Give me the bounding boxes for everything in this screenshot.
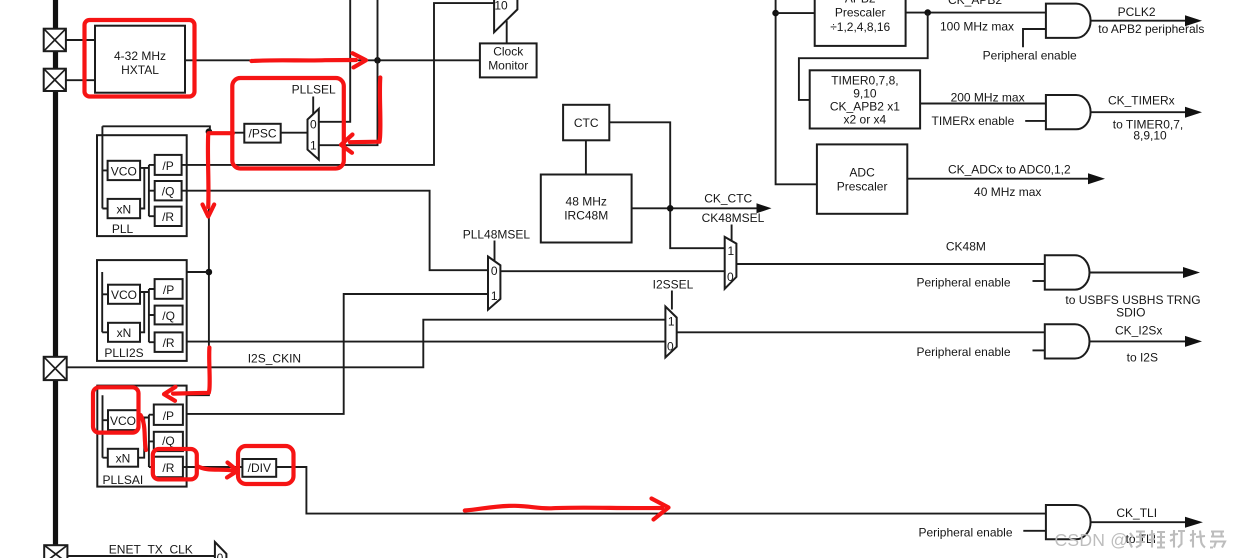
PLL /Q box	[155, 181, 182, 200]
PLL /R box	[155, 207, 182, 226]
svg-text:1: 1	[727, 244, 734, 258]
wire peripheral enable stub U5	[1023, 530, 1046, 532]
svg-text:100 MHz max: 100 MHz max	[940, 20, 1014, 34]
svg-text:Peripheral enable: Peripheral enable	[916, 275, 1010, 289]
PLLI2S /Q box	[155, 306, 183, 325]
svg-text:HXTAL: HXTAL	[121, 63, 159, 77]
mux 10 (clock monitor select, cut at top)	[494, 0, 517, 32]
PLLSAI internal wires	[103, 395, 154, 467]
svg-text:x2 or x4: x2 or x4	[844, 113, 887, 127]
svg-text:VCO: VCO	[111, 164, 137, 178]
svg-text:40 MHz max: 40 MHz max	[974, 185, 1041, 199]
wire I2SSEL select line	[671, 291, 673, 310]
ADC Prescaler box	[817, 144, 907, 213]
PLL internal wires	[102, 126, 154, 216]
svg-text:Prescaler: Prescaler	[835, 5, 886, 19]
wire mux10 output to Clock Monitor	[506, 21, 508, 44]
PLLSAI /P box	[154, 405, 183, 425]
svg-text:1: 1	[310, 139, 317, 153]
wire PLLSAI /P to PLL48MSEL 1 input	[183, 294, 488, 414]
node IRC48M junction	[667, 205, 674, 212]
mux ENET (cut at bottom)	[215, 542, 227, 558]
wire CK48M output	[1090, 272, 1185, 274]
wire I2SSEL output CK_I2S line	[677, 331, 1045, 333]
PLLI2S block outer box	[97, 260, 187, 361]
PLLSAI /Q box	[154, 432, 183, 451]
red annotation: stub from junction into red box	[209, 131, 234, 135]
PLLSAI VCO box	[108, 410, 138, 430]
svg-text:CK_I2Sx: CK_I2Sx	[1115, 323, 1162, 337]
svg-text:0: 0	[667, 340, 674, 354]
arrowhead CK48M	[1183, 267, 1200, 278]
divider /DIV box	[242, 459, 276, 477]
svg-text:8,9,10: 8,9,10	[1133, 129, 1167, 143]
wire HXTAL output to Clock Monitor	[185, 59, 480, 61]
svg-text:Peripheral enable: Peripheral enable	[916, 345, 1010, 359]
svg-text:/R: /R	[162, 210, 174, 224]
wire distribution vertical to PLLI2S and PLLSAI	[103, 132, 209, 396]
PLL /P box	[155, 155, 182, 175]
wire peripheral enable stub U4	[1033, 349, 1045, 351]
PLLSAI block outer box	[97, 386, 186, 487]
red annotation: arrow down from /PSC junction	[206, 135, 211, 208]
svg-text:CK_ADCx to ADC0,1,2: CK_ADCx to ADC0,1,2	[948, 162, 1071, 176]
red annotation: box around /DIV	[238, 446, 294, 484]
red annotation: box around PLLSAI VCO	[93, 387, 139, 432]
svg-text:xN: xN	[117, 326, 132, 340]
svg-text:VCO: VCO	[111, 288, 137, 302]
wire PLLSEL select line	[312, 97, 314, 115]
red annotation: box around HXTAL	[85, 20, 195, 97]
PLLSAI xN box	[108, 449, 138, 467]
red annotation: long arrow over CK_TLI line	[465, 506, 662, 511]
svg-text:1: 1	[668, 315, 675, 329]
svg-text:PLLSAI: PLLSAI	[103, 473, 144, 487]
PLL block outer box	[97, 135, 187, 236]
svg-text:9,10: 9,10	[853, 87, 877, 101]
wire CK48M output line	[736, 263, 1044, 265]
wire OSCIN to HXTAL	[66, 39, 95, 41]
arrowhead CK_I2Sx	[1185, 336, 1202, 347]
wire CK48MSEL select line	[731, 225, 733, 242]
PLL VCO box	[108, 161, 141, 180]
mux I2SSEL	[665, 307, 676, 358]
svg-text:PLLI2S: PLLI2S	[104, 346, 143, 360]
oscillator HXTAL box	[95, 26, 185, 93]
oscillator IRC48M box	[541, 175, 632, 243]
svg-text:/R: /R	[162, 461, 174, 475]
mux PLLSEL	[308, 109, 319, 160]
svg-text:0: 0	[310, 118, 317, 132]
and-gate U5 CK_TLI	[1046, 505, 1091, 539]
svg-text:xN: xN	[116, 452, 131, 466]
svg-text:48 MHz: 48 MHz	[566, 194, 607, 208]
wire OSCOUT to HXTAL	[66, 79, 95, 81]
svg-text:CK_TLI: CK_TLI	[1116, 506, 1157, 520]
wire CK_TLI output	[1091, 521, 1186, 523]
wire PLL48MSEL output to CK48MSEL 0 input	[500, 270, 724, 272]
pin OSCIN (crossed box)	[44, 29, 66, 52]
wire /DIV output CK_TLI line	[276, 467, 1046, 514]
red annotation: arrow down-left into PLLSEL 1 input	[350, 78, 380, 143]
wire TIMER output to gate U2	[920, 103, 1046, 105]
svg-text:0: 0	[727, 270, 734, 284]
svg-text:CK_CTC: CK_CTC	[704, 192, 752, 206]
node HXTAL junction	[374, 57, 381, 64]
PLLI2S /P box	[155, 279, 183, 299]
arrowhead CK_TLI	[1185, 517, 1203, 528]
pin ENET_TX_CLK (crossed box, cut)	[44, 545, 67, 558]
svg-text:TIMERx enable: TIMERx enable	[932, 114, 1015, 128]
wire PLLI2S top feed	[102, 271, 209, 273]
node PLLI2S junction	[206, 269, 213, 276]
svg-text:xN: xN	[116, 202, 131, 216]
svg-text:/Q: /Q	[162, 309, 175, 323]
svg-text:to I2S: to I2S	[1127, 351, 1158, 365]
Clock Monitor box	[480, 43, 537, 77]
svg-text:PCLK2: PCLK2	[1118, 5, 1156, 19]
wire PLL /Q output to PLL48MSEL 0 input	[182, 191, 488, 271]
wire PLLI2S /R to I2SSEL 0 input	[183, 341, 666, 343]
node APB2 junction	[772, 10, 779, 17]
svg-text:PLL48MSEL: PLL48MSEL	[463, 228, 531, 242]
svg-text:CSDN @: CSDN @	[1055, 530, 1129, 550]
node PLL distribution junction	[206, 128, 213, 135]
PLLI2S xN box	[108, 323, 140, 342]
svg-text:ADC: ADC	[849, 165, 875, 179]
svg-text:TIMER0,7,8,: TIMER0,7,8,	[831, 74, 898, 88]
arrowhead PCLK2	[1185, 15, 1202, 26]
mux PLL48MSEL	[488, 257, 500, 310]
wire to APB2 prescaler	[776, 12, 815, 14]
watermark CJK glyph blocks	[1129, 530, 1225, 548]
wire peripheral enable to gate U1	[1023, 29, 1046, 47]
wire peripheral enable stub U3	[1033, 280, 1045, 282]
wire TIMERx enable stub	[1025, 120, 1046, 122]
svg-text:CTC: CTC	[574, 116, 599, 130]
svg-text:/P: /P	[162, 159, 173, 173]
arrowhead CK_ADCx	[1088, 173, 1105, 184]
svg-text:/R: /R	[163, 336, 175, 350]
wire CTC to CK48MSEL 1 input	[609, 122, 724, 248]
svg-text:/Q: /Q	[162, 434, 175, 448]
svg-text:/P: /P	[163, 283, 174, 297]
wire PLL /P output up to clock monitor mux	[182, 3, 495, 165]
wire CTC to IRC48M	[585, 140, 587, 174]
TIMER multiplier box	[810, 70, 920, 128]
wire ENET_TX_CLK	[67, 555, 215, 557]
svg-text:/Q: /Q	[162, 185, 175, 199]
APB2 Prescaler box (cut at top)	[815, 0, 906, 46]
svg-text:CK_TIMERx: CK_TIMERx	[1108, 94, 1175, 108]
pin OSCOUT (crossed box)	[44, 69, 66, 91]
arrowhead CK_TIMERx	[1185, 107, 1202, 118]
svg-text:SDIO: SDIO	[1116, 306, 1145, 320]
wire IRC48M output CK_CTC	[632, 207, 758, 209]
svg-text:200 MHz max: 200 MHz max	[951, 91, 1025, 105]
wire HXTAL drop to PLLSEL 1 input	[319, 0, 378, 145]
wire PLL top feed	[102, 126, 209, 131]
PLL xN box	[108, 199, 141, 218]
arrowhead CK_CTC	[757, 203, 772, 213]
svg-text:PLL: PLL	[112, 222, 134, 236]
red annotation: arrow into PLLSAI top	[173, 348, 210, 394]
svg-text:IRC48M: IRC48M	[564, 209, 608, 223]
and-gate U4 CK_I2Sx	[1045, 324, 1090, 358]
wire PLLSEL output to /PSC	[281, 132, 308, 134]
wire CK_I2Sx output	[1090, 340, 1187, 342]
svg-text:Peripheral enable: Peripheral enable	[983, 49, 1077, 63]
red annotation: box around PLLSAI /R	[153, 449, 197, 479]
svg-text:0: 0	[217, 551, 224, 558]
wire PLLSAI /R to /DIV	[183, 466, 243, 468]
PLLI2S VCO box	[108, 285, 140, 304]
chip boundary bus bar	[53, 0, 58, 558]
mux CK48MSEL	[725, 237, 737, 289]
svg-text:Clock: Clock	[493, 44, 524, 58]
svg-text:1: 1	[491, 289, 498, 303]
svg-text:0: 0	[491, 264, 498, 278]
svg-text:to USBFS USBHS TRNG: to USBFS USBHS TRNG	[1065, 293, 1200, 307]
svg-text:Peripheral enable: Peripheral enable	[918, 526, 1012, 540]
PLLI2S /R box	[155, 332, 183, 352]
svg-text:PLLSEL: PLLSEL	[292, 82, 336, 96]
red annotation: link from VCO box down to /R box	[141, 415, 147, 450]
pin I2S_CKIN (crossed box)	[44, 357, 67, 380]
svg-text:/P: /P	[163, 409, 174, 423]
wire IRC16M drop to PLLSEL 0 input	[319, 0, 350, 122]
red annotation: arrow from /R to /DIV	[198, 466, 234, 470]
svg-text:I2SSEL: I2SSEL	[653, 278, 694, 292]
svg-text:CK_APB2: CK_APB2	[948, 0, 1002, 7]
svg-text:/PSC: /PSC	[248, 127, 276, 141]
and-gate U2 CK_TIMERx	[1046, 95, 1091, 129]
wire /PSC output to PLL distribution node	[209, 132, 244, 134]
PLLI2S internal wires	[102, 272, 154, 342]
svg-text:4-32 MHz: 4-32 MHz	[114, 49, 166, 63]
svg-text:CK48MSEL: CK48MSEL	[702, 211, 765, 225]
CTC box	[563, 105, 609, 141]
wire CK_APB2 to TIMER multiplier	[799, 13, 928, 100]
svg-text:/DIV: /DIV	[248, 461, 271, 475]
svg-text:Prescaler: Prescaler	[837, 180, 888, 194]
red annotation: box around /PSC and PLLSEL mux	[232, 78, 343, 169]
svg-text:to APB2 peripherals: to APB2 peripherals	[1098, 22, 1204, 36]
svg-text:VCO: VCO	[110, 414, 136, 428]
and-gate U1 PCLK2	[1046, 4, 1091, 38]
svg-text:Monitor: Monitor	[488, 58, 528, 72]
wire I2S_CKIN to I2SSEL 1 input	[67, 320, 666, 368]
wire ADC output	[907, 178, 1089, 180]
wire CK_APB2 to gate	[906, 12, 1046, 14]
divider /PSC box	[244, 124, 280, 143]
svg-text:÷1,2,4,8,16: ÷1,2,4,8,16	[830, 20, 890, 34]
wire CK_TIMERx output	[1091, 111, 1186, 113]
wire PCLK2 output	[1091, 20, 1186, 22]
red annotation: arrow over HXTAL output	[252, 60, 357, 61]
svg-text:CK48M: CK48M	[946, 239, 986, 253]
and-gate U3 CK48M	[1045, 255, 1090, 289]
PLLSAI /R box	[154, 457, 183, 478]
svg-text:ENET_TX_CLK: ENET_TX_CLK	[109, 543, 193, 557]
svg-text:I2S_CKIN: I2S_CKIN	[248, 351, 301, 365]
wire AHB bus vertical to ADC	[776, 0, 817, 184]
wire PLL48MSEL select line	[494, 241, 496, 261]
node CK_APB2 junction	[924, 9, 931, 16]
svg-text:10: 10	[494, 0, 508, 13]
